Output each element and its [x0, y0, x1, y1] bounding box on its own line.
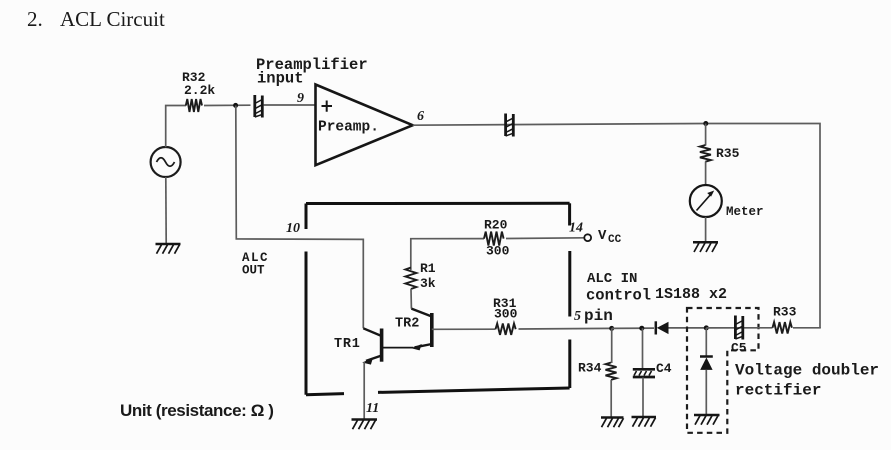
transistor TR2: [395, 309, 432, 351]
svg-text:control: control: [586, 287, 651, 305]
wire R35 to meter: [705, 162, 707, 186]
node A junction dot: [233, 103, 238, 108]
capacitor C4: [633, 361, 672, 377]
svg-text:R35: R35: [716, 146, 740, 161]
svg-text:pin: pin: [584, 307, 613, 325]
label: Preamplifier input: [256, 56, 368, 88]
svg-text:Unit (resistance: Ω ): Unit (resistance: Ω ): [120, 401, 274, 420]
resistor R34: [578, 361, 617, 380]
svg-text:C4: C4: [656, 361, 672, 376]
label 1S188 x2: [655, 286, 727, 303]
pin 10 label: [286, 221, 300, 236]
op-amp U1 Preamp: [316, 85, 413, 166]
wire D2 to ground: [705, 370, 707, 415]
svg-text:3k: 3k: [420, 276, 436, 291]
diode D2 (vertical, 1S188): [700, 357, 713, 370]
svg-text:300: 300: [494, 307, 518, 322]
svg-text:input: input: [257, 70, 304, 88]
wire TR1 emitter to ground (pin 11): [363, 362, 365, 419]
svg-text:TR1: TR1: [334, 337, 361, 352]
svg-text:1S188 x2: 1S188 x2: [655, 286, 727, 303]
resistor R33: [773, 305, 797, 334]
svg-text:R20: R20: [484, 218, 508, 233]
meter M1: [690, 185, 764, 219]
wire TR2 base to R31: [432, 328, 496, 330]
svg-text:OUT: OUT: [242, 264, 265, 278]
ground (R34): [601, 418, 624, 428]
svg-text:R34: R34: [578, 361, 602, 376]
ferrite bead FB2 (output line): [506, 114, 514, 137]
node D junction dot (C4): [639, 326, 644, 331]
svg-text:C5: C5: [731, 341, 747, 356]
wire node C to R34: [611, 328, 613, 363]
wire R32 to node A: [204, 104, 251, 106]
wire node C to node D: [612, 327, 654, 329]
label Unit (resistance): [120, 401, 274, 420]
svg-text:ACL Circuit: ACL Circuit: [60, 7, 165, 31]
wire op-amp output to top-right corner: [413, 124, 820, 329]
pin 5 label: [574, 307, 613, 325]
svg-text:R33: R33: [773, 305, 797, 320]
node B junction dot (meter branch): [703, 121, 708, 126]
svg-text:6: 6: [417, 109, 424, 124]
ground (meter): [693, 242, 718, 252]
svg-text:Voltage doubler: Voltage doubler: [735, 362, 879, 380]
label ALC OUT: [242, 251, 269, 278]
ground (C4): [632, 417, 657, 427]
transistor TR1: [334, 328, 414, 364]
resistor R35: [700, 145, 740, 162]
wire meter to ground: [705, 217, 707, 242]
label ALC IN control: [586, 271, 651, 305]
resistor R1: [405, 261, 435, 291]
pin 9 label: [297, 91, 304, 106]
wire node B down to R35: [705, 124, 707, 146]
svg-text:300: 300: [486, 244, 510, 259]
svg-text:2.2k: 2.2k: [184, 83, 215, 98]
svg-text:Meter: Meter: [726, 205, 764, 219]
wire node A down to pin 10 (ALC OUT): [236, 106, 363, 329]
svg-text:5: 5: [574, 309, 581, 324]
wire C4 to ground: [642, 378, 644, 417]
resistor R31: [493, 296, 518, 335]
svg-text:2.: 2.: [27, 7, 43, 31]
wire D1 to node E: [669, 327, 707, 329]
diode D1 (1S188, horizontal): [656, 321, 669, 334]
wire node E to D2: [705, 328, 707, 357]
pin 11 label: [366, 401, 379, 416]
VCC terminal: [584, 228, 621, 246]
wire R31 to node C (pin 5): [519, 327, 612, 330]
svg-text:11: 11: [366, 401, 379, 416]
svg-text:V: V: [598, 228, 607, 244]
node E junction dot (doubler): [704, 325, 709, 330]
wire ac source bottom to ground: [165, 177, 167, 244]
dashed box: voltage doubler: [687, 308, 759, 433]
ground (pin 11): [352, 420, 378, 430]
svg-text:14: 14: [569, 221, 583, 236]
wire FB1 to op-amp pin 9: [264, 104, 316, 106]
ground (D2): [694, 415, 720, 425]
svg-text:9: 9: [297, 91, 304, 106]
wire R33 to right riser: [793, 327, 821, 329]
resistor R20: [484, 218, 510, 259]
wire R1 bottom to TR2 collector: [410, 289, 412, 309]
svg-text:R1: R1: [420, 261, 436, 276]
ferrite bead FB1 (preamp input): [255, 95, 262, 118]
svg-text:Preamp.: Preamp.: [318, 120, 379, 136]
ac source V1: [151, 147, 181, 177]
resistor R32: [182, 70, 215, 112]
svg-text:rectifier: rectifier: [735, 382, 821, 400]
wire node E through C5 to R33: [706, 327, 772, 329]
ground (ac source): [156, 244, 181, 254]
wire R34 to ground: [610, 380, 612, 417]
pin 6 label: [417, 109, 424, 124]
title: 2. ACL Circuit: [27, 7, 165, 31]
node C junction dot (R34): [609, 326, 614, 331]
capacitor C5 (feedthrough): [731, 316, 747, 356]
label Voltage doubler rectifier: [735, 362, 879, 400]
IC box outline (thick): [306, 203, 570, 394]
pin 14 label: [569, 221, 583, 236]
svg-text:TR2: TR2: [395, 317, 419, 332]
svg-text:CC: CC: [608, 234, 622, 246]
wire ac source top to R32: [166, 106, 186, 148]
wire node D to C4: [642, 328, 644, 368]
svg-text:ALC IN: ALC IN: [587, 271, 637, 287]
wire R20 row: R1 top corner to VCC terminal: [411, 238, 585, 270]
svg-text:10: 10: [286, 221, 300, 236]
